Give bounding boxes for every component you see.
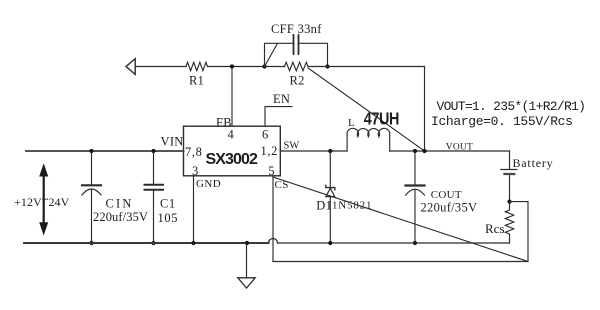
svg-text:VIN: VIN (161, 134, 184, 148)
svg-text:+12V~24V: +12V~24V (14, 192, 70, 209)
node CIN top junction (89, 149, 93, 153)
wire ground rail right with hop at CS crossing (269, 239, 510, 244)
op-amp U1 SX3002 body (184, 126, 281, 176)
node diode junction (328, 149, 332, 153)
node gnd pin3 (191, 241, 195, 245)
node battery-Rcs (507, 200, 511, 204)
node COUT bottom junction (413, 241, 417, 245)
source +12V~24V arrow (43, 174, 45, 225)
svg-text:CS: CS (275, 179, 289, 191)
node gnd symbol stub (245, 241, 249, 245)
svg-text:SX3002: SX3002 (206, 151, 259, 168)
wire CS pin 5 down (272, 176, 274, 262)
svg-text:7,8: 7,8 (185, 145, 202, 159)
inductor L 47UH (346, 133, 348, 151)
wire VIN rail (26, 150, 184, 152)
diode D1 1N5821 (329, 151, 331, 243)
wire ground rail left (24, 242, 269, 244)
battery B1 (509, 151, 511, 169)
node CFF loop right (325, 64, 329, 68)
svg-text:GND: GND (196, 178, 221, 190)
svg-text:6: 6 (262, 127, 269, 141)
svg-text:5: 5 (268, 164, 275, 178)
svg-text:VOUT=1. 235*(1+R2/R1): VOUT=1. 235*(1+R2/R1) (437, 99, 586, 114)
stray diagonal in CFF loop (265, 43, 278, 66)
svg-text:220uf/35V: 220uf/35V (421, 201, 478, 215)
svg-text:CIN: CIN (106, 197, 134, 211)
wire EN pin 6 (265, 107, 292, 127)
node COUT junction (413, 149, 417, 153)
resistor Rcs (505, 202, 513, 243)
svg-text:C1: C1 (160, 197, 176, 211)
svg-text:R2: R2 (290, 73, 305, 87)
svg-text:VOUT: VOUT (446, 143, 473, 153)
node FB junction (230, 64, 234, 68)
svg-text:Icharge=0. 155V/Rcs: Icharge=0. 155V/Rcs (431, 114, 573, 129)
svg-text:SW: SW (284, 141, 300, 152)
node CIN bottom junction (89, 241, 93, 245)
input arrow (left open triangle) (126, 59, 135, 75)
wire FB vertical to pin 4 (231, 67, 233, 127)
svg-text:FB: FB (216, 115, 232, 129)
svg-text:1,2: 1,2 (261, 144, 278, 158)
wire right vertical down to VOUT (424, 67, 426, 152)
svg-text:D1: D1 (316, 199, 332, 213)
svg-text:1N5821: 1N5821 (332, 200, 372, 212)
svg-text:105: 105 (158, 211, 179, 225)
svg-text:220uf/35V: 220uf/35V (93, 210, 148, 224)
capacitor CIN (91, 151, 93, 185)
capacitor CFF loop wires (265, 43, 328, 66)
node C1 top junction (151, 149, 155, 153)
node C1 bottom junction (151, 241, 155, 245)
wire arrow to R1 (135, 66, 186, 68)
resistor R1 (186, 62, 208, 70)
svg-text:Battery: Battery (513, 156, 554, 170)
ground symbol (246, 243, 248, 278)
capacitor C1 (153, 151, 155, 185)
stray diagonal CS to loop corner (273, 177, 528, 262)
capacitor COUT (414, 151, 416, 186)
wire R1 to FB node (208, 66, 265, 68)
wire R2 to right vertical (308, 66, 425, 68)
svg-text:4: 4 (228, 127, 235, 141)
capacitor CFF plates (293, 35, 295, 54)
wire CS return loop (273, 202, 528, 262)
svg-text:EN: EN (273, 92, 290, 106)
wire GND pin 3 (193, 176, 195, 243)
svg-text:COUT: COUT (431, 189, 462, 201)
svg-text:R1: R1 (189, 73, 204, 87)
wire SW pin to inductor (280, 150, 347, 152)
node gnd diode (328, 241, 332, 245)
node CFF loop left (262, 64, 266, 68)
svg-text:L: L (348, 117, 355, 129)
svg-text:47UH: 47UH (364, 109, 399, 129)
wire inductor to VOUT (390, 150, 510, 152)
svg-text:Rcs: Rcs (485, 221, 505, 236)
node VOUT junction (422, 149, 426, 153)
stray diagonal R2 to VOUT node (308, 68, 425, 151)
svg-text:CFF 33nf: CFF 33nf (271, 22, 322, 36)
wire node to R2 (265, 66, 285, 68)
resistor R2 (285, 62, 309, 70)
